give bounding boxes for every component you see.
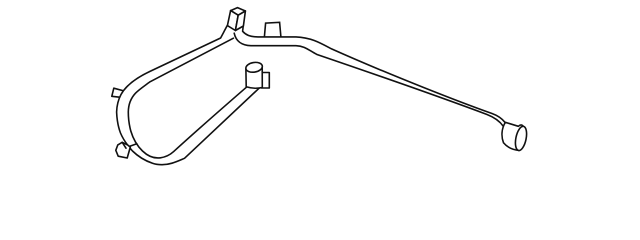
clip upper-left	[112, 88, 124, 97]
loop inner edge	[128, 38, 247, 158]
harness loop tube (hairpin) white body	[117, 26, 260, 165]
main tube white body	[234, 31, 505, 126]
middle cylinder connector: top ellipse	[245, 61, 263, 73]
end plug (bottom right)	[502, 122, 528, 151]
wiring harness diagram	[0, 0, 640, 176]
connector box (top)	[227, 8, 245, 31]
clip lower-left (in front of tube)	[116, 142, 137, 158]
main tube bottom edge / wire lower line	[234, 33, 503, 126]
loop outer edge	[117, 26, 260, 165]
middle cylinder connector: body	[246, 66, 262, 89]
main tube top edge / wire upper line	[243, 26, 505, 122]
middle cylinder connector: side tab	[262, 73, 270, 89]
tab on tube	[264, 22, 281, 38]
